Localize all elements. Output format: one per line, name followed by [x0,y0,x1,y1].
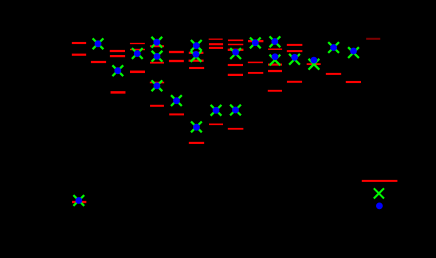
red dash series mark 8 at (137.5,49.5) [130,49,145,50]
red dash series mark 13 at (157.0,105.8) [150,105,164,107]
red dash series mark 27 at (235.6,49.8) [228,49,244,51]
red dash series mark 19 at (196.6,68.0) [189,67,204,69]
red dash series mark 5 at (117.5,56.1) [110,55,125,57]
legend: red line sample [362,180,398,182]
green X marker 16 at (274.9,60.0) [270,55,281,66]
red dash series mark 3 at (98.5,62.0) [91,61,106,63]
blue dot marker 19 at (333.6,47.5) [330,44,337,51]
green X marker 10 at (196.4,126.9) [191,122,202,133]
blue dot marker 3 at (137.3,53.6) [134,50,141,57]
red dash series mark 33 at (255.6,72.9) [248,72,263,74]
blue dot marker 14 at (255.3,42.7) [252,39,259,46]
green X marker 21 at (78.8,200.5) [73,195,84,206]
red dash series mark 16 at (176.6,114.4) [169,113,184,115]
red dash series mark 41 at (313.7,64.1) [307,63,321,65]
red dash series mark 10 at (157.0,46.2) [150,45,164,47]
green X marker 15 at (274.9,41.8) [270,36,281,47]
green X marker 1 at (98.0,43.8) [93,38,104,49]
red dash series mark 17 at (196.1,52.8) [189,52,204,54]
blue dot marker 16 at (275.0,56.75) [272,53,279,60]
red dash series mark 9 at (137.5,71.8) [130,71,145,74]
red dash series mark 38 at (294.6,44.9) [287,44,303,46]
green X marker 8 at (196.3,45.4) [191,40,202,51]
blue dot marker 10 at (196.5,127.2) [193,124,200,131]
blue dot marker 17 at (294.6,57.3) [291,54,298,61]
red dash series mark 2 at (79.0,54.7) [72,54,86,56]
blue dot marker 1 at (98.0,43.8) [95,40,102,47]
red dash series mark 7 at (137.4,43.5) [130,43,145,44]
blue dot marker 5 at (157.0,56.4) [154,53,161,60]
red dash series mark 4 at (117.4,51.0) [110,50,125,52]
red dash series mark 20 at (196.5,142.9) [189,142,204,144]
green X marker 11 at (216.0,110.3) [211,105,222,116]
red dash series mark 11 at (157.0,62.7) [150,62,164,64]
green X marker 12 at (235.6,53.6) [230,48,241,59]
green X marker 14 at (255.3,42.9) [250,38,261,49]
blue dot marker 20 at (353.5,51.0) [350,48,357,55]
red dash series mark 25 at (235.6,40.3) [228,40,243,42]
red dash series mark 44 at (373.2,38.8) [366,38,380,40]
red dash series mark 28 at (235.4,65.0) [228,64,243,66]
blue dot marker 9 at (196.0,54.4) [193,51,200,58]
red dash series mark 36 at (275.0,71.0) [268,70,282,72]
blue dot marker 15 at (274.8,41.5) [271,38,278,45]
red dash series mark 18 at (196.1,60.7) [189,60,204,62]
red dash series mark 37 at (274.9,90.8) [268,90,282,92]
blue dot marker 11 at (216.0,110.3) [213,107,220,114]
red dash series mark 1 at (79.0,43.0) [72,42,86,44]
red dash series mark 43 at (353.4,82.0) [346,81,361,83]
blue dot marker 13 at (235.5,110.0) [232,107,239,114]
red dash series mark 31 at (255.7,41.1) [248,40,263,42]
green X marker 6 at (156.9,85.8) [152,80,163,91]
green X marker 17 at (294.5,59.3) [289,54,300,65]
red dash series mark 24 at (216.0,124.3) [209,124,223,126]
legend: green X sample [374,188,384,198]
green X marker 19 at (333.6,47.5) [328,42,339,53]
red dash series mark 34 at (275.1,49.2) [268,49,282,50]
red dash series mark 14 at (176.4,52.0) [169,51,184,53]
blue dot marker 21 at (78.8,200.5) [75,197,82,204]
blue dot marker 12 at (235.6,52.2) [232,49,239,56]
red dash series mark 29 at (235.4,74.9) [228,74,243,76]
blue dot marker 7 at (176.5,100.7) [173,97,180,104]
green X marker 4 at (156.8,42.2) [151,37,162,48]
blue dot marker 8 at (196.3,45.6) [193,42,200,49]
red dash series mark 21 at (215.7,39.2) [209,39,223,40]
red dash series mark 12 at (157.0,82.5) [150,82,164,84]
red dash series mark 6 at (118.0,92.4) [111,91,126,94]
green X marker 7 at (176.4,100.6) [171,95,182,106]
red dash series mark 23 at (216.0,47.9) [209,47,223,49]
green X marker 20 at (353.5,52.6) [348,47,359,58]
green X marker 9 at (196.0,56.4) [191,51,202,62]
red dash series mark 30 at (235.6,128.8) [228,128,244,130]
red dash series mark 26 at (235.6,44.5) [228,44,243,46]
blue dot marker 18 at (313.9,60.1) [311,57,318,64]
green X marker 5 at (157.0,56.2) [152,51,163,62]
blue dot marker 6 at (156.9,85.8) [154,82,161,89]
red dash series mark 42 at (333.5,73.9) [326,73,341,75]
legend: blue dot sample [376,203,383,210]
red dash series mark 45 at (79.2,202.0) [72,201,86,203]
blue dot marker 2 at (117.8,70.7) [114,67,121,74]
red dash series mark 35 at (275.0,64.6) [268,64,282,66]
red dash series mark 40 at (294.5,81.8) [287,81,302,83]
green X marker 13 at (235.5,110.0) [230,105,241,116]
green X marker 2 at (117.8,70.7) [112,65,123,76]
red dash series mark 15 at (176.4,61.0) [169,60,184,62]
green X marker 3 at (137.3,53.5) [132,48,143,59]
red dash series mark 22 at (216.0,44.2) [209,43,223,45]
red dash series mark 32 at (255.4,62.4) [248,62,263,64]
red dash series mark 39 at (294.6,51.1) [287,50,303,52]
blue dot marker 4 at (156.8,42.2) [153,39,160,46]
green X marker 18 at (313.9,64.2) [309,59,320,70]
